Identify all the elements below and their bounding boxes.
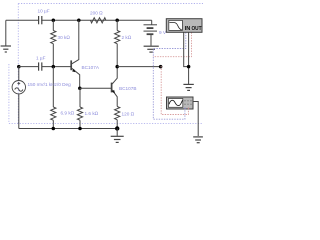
bode plotter red lead <box>153 32 192 56</box>
resistor R3 2k <box>115 20 120 66</box>
resistor R1 30k <box>51 20 56 66</box>
svg-text:9 V: 9 V <box>159 30 167 35</box>
svg-text:1 µF: 1 µF <box>36 56 46 61</box>
svg-text:30 kΩ: 30 kΩ <box>58 35 71 40</box>
node top rail left <box>52 19 56 23</box>
ground symbol scope <box>193 137 203 143</box>
scope ground wire <box>193 102 198 137</box>
wire battery drop <box>151 20 153 25</box>
svg-text:BC107A: BC107A <box>82 65 100 70</box>
ground symbol bode <box>183 84 193 90</box>
ground symbol battery <box>144 46 159 52</box>
capacitor C1 10uF <box>39 16 42 24</box>
scope channel red lead <box>161 67 189 115</box>
selection marquee bottom edge <box>9 122 203 124</box>
resistor R2 200 horizontal <box>91 18 106 23</box>
ground symbol top-left <box>1 46 11 52</box>
node input row AC top <box>17 65 21 69</box>
node bode ground <box>187 65 191 69</box>
wire output row <box>117 66 160 68</box>
resistor R4 6.9k <box>51 67 56 129</box>
svg-text:2 kΩ: 2 kΩ <box>122 35 132 40</box>
bode plotter blue lead <box>153 32 186 119</box>
svg-text:120 Ω: 120 Ω <box>122 112 135 117</box>
capacitor C1 gap mask <box>39 19 41 21</box>
svg-text:6.9 kΩ: 6.9 kΩ <box>61 111 75 116</box>
wire C2 to base node <box>42 66 71 68</box>
wire top rail <box>6 19 152 21</box>
selection marquee top edge <box>18 3 203 5</box>
battery V1 <box>144 25 158 34</box>
transistor Q2 BC107B <box>112 67 118 106</box>
node bottom rail left <box>52 127 56 131</box>
transistor Q1 emitter arrow <box>72 69 75 72</box>
node top rail right <box>115 19 119 23</box>
node output B <box>159 65 163 69</box>
svg-text:BC107B: BC107B <box>119 86 136 91</box>
node bottom rail middle <box>78 127 82 131</box>
bode plotter U1 <box>166 19 202 33</box>
wire emitter to base Q2 <box>80 87 111 89</box>
node collector Q2 output <box>115 65 119 69</box>
resistor R5 1.6k <box>77 88 82 128</box>
svg-text:1.6 kΩ: 1.6 kΩ <box>85 111 99 116</box>
svg-text:OUT: OUT <box>192 26 203 32</box>
transistor Q2 emitter arrow <box>112 90 115 94</box>
node emitter Q1 <box>78 86 82 90</box>
node top rail middle <box>77 19 81 23</box>
transistor Q1 BC107A <box>71 20 80 88</box>
svg-text:200 Ω: 200 Ω <box>90 11 103 16</box>
node bottom rail right <box>115 126 119 130</box>
AC source V2 <box>12 67 25 129</box>
svg-text:150 mV/1 kHz/0 Deg: 150 mV/1 kHz/0 Deg <box>28 82 72 87</box>
ground symbol bottom <box>111 136 124 142</box>
node base Q1 <box>52 65 56 69</box>
resistor R6 120 <box>115 106 120 129</box>
wire input row <box>19 66 39 68</box>
selection marquee left edge <box>17 4 19 124</box>
svg-text:10 µF: 10 µF <box>38 9 50 14</box>
bode plotter ground leads <box>184 32 189 84</box>
battery ground lead <box>150 34 152 46</box>
capacitor C2 1uF <box>39 62 42 70</box>
wire bottom rail <box>19 128 117 130</box>
selection marquee inner left edge <box>8 64 10 123</box>
svg-text:IN: IN <box>185 26 191 32</box>
oscilloscope U2 <box>167 97 194 109</box>
ground lead top-left <box>5 20 7 45</box>
ground lead bottom <box>116 129 118 136</box>
